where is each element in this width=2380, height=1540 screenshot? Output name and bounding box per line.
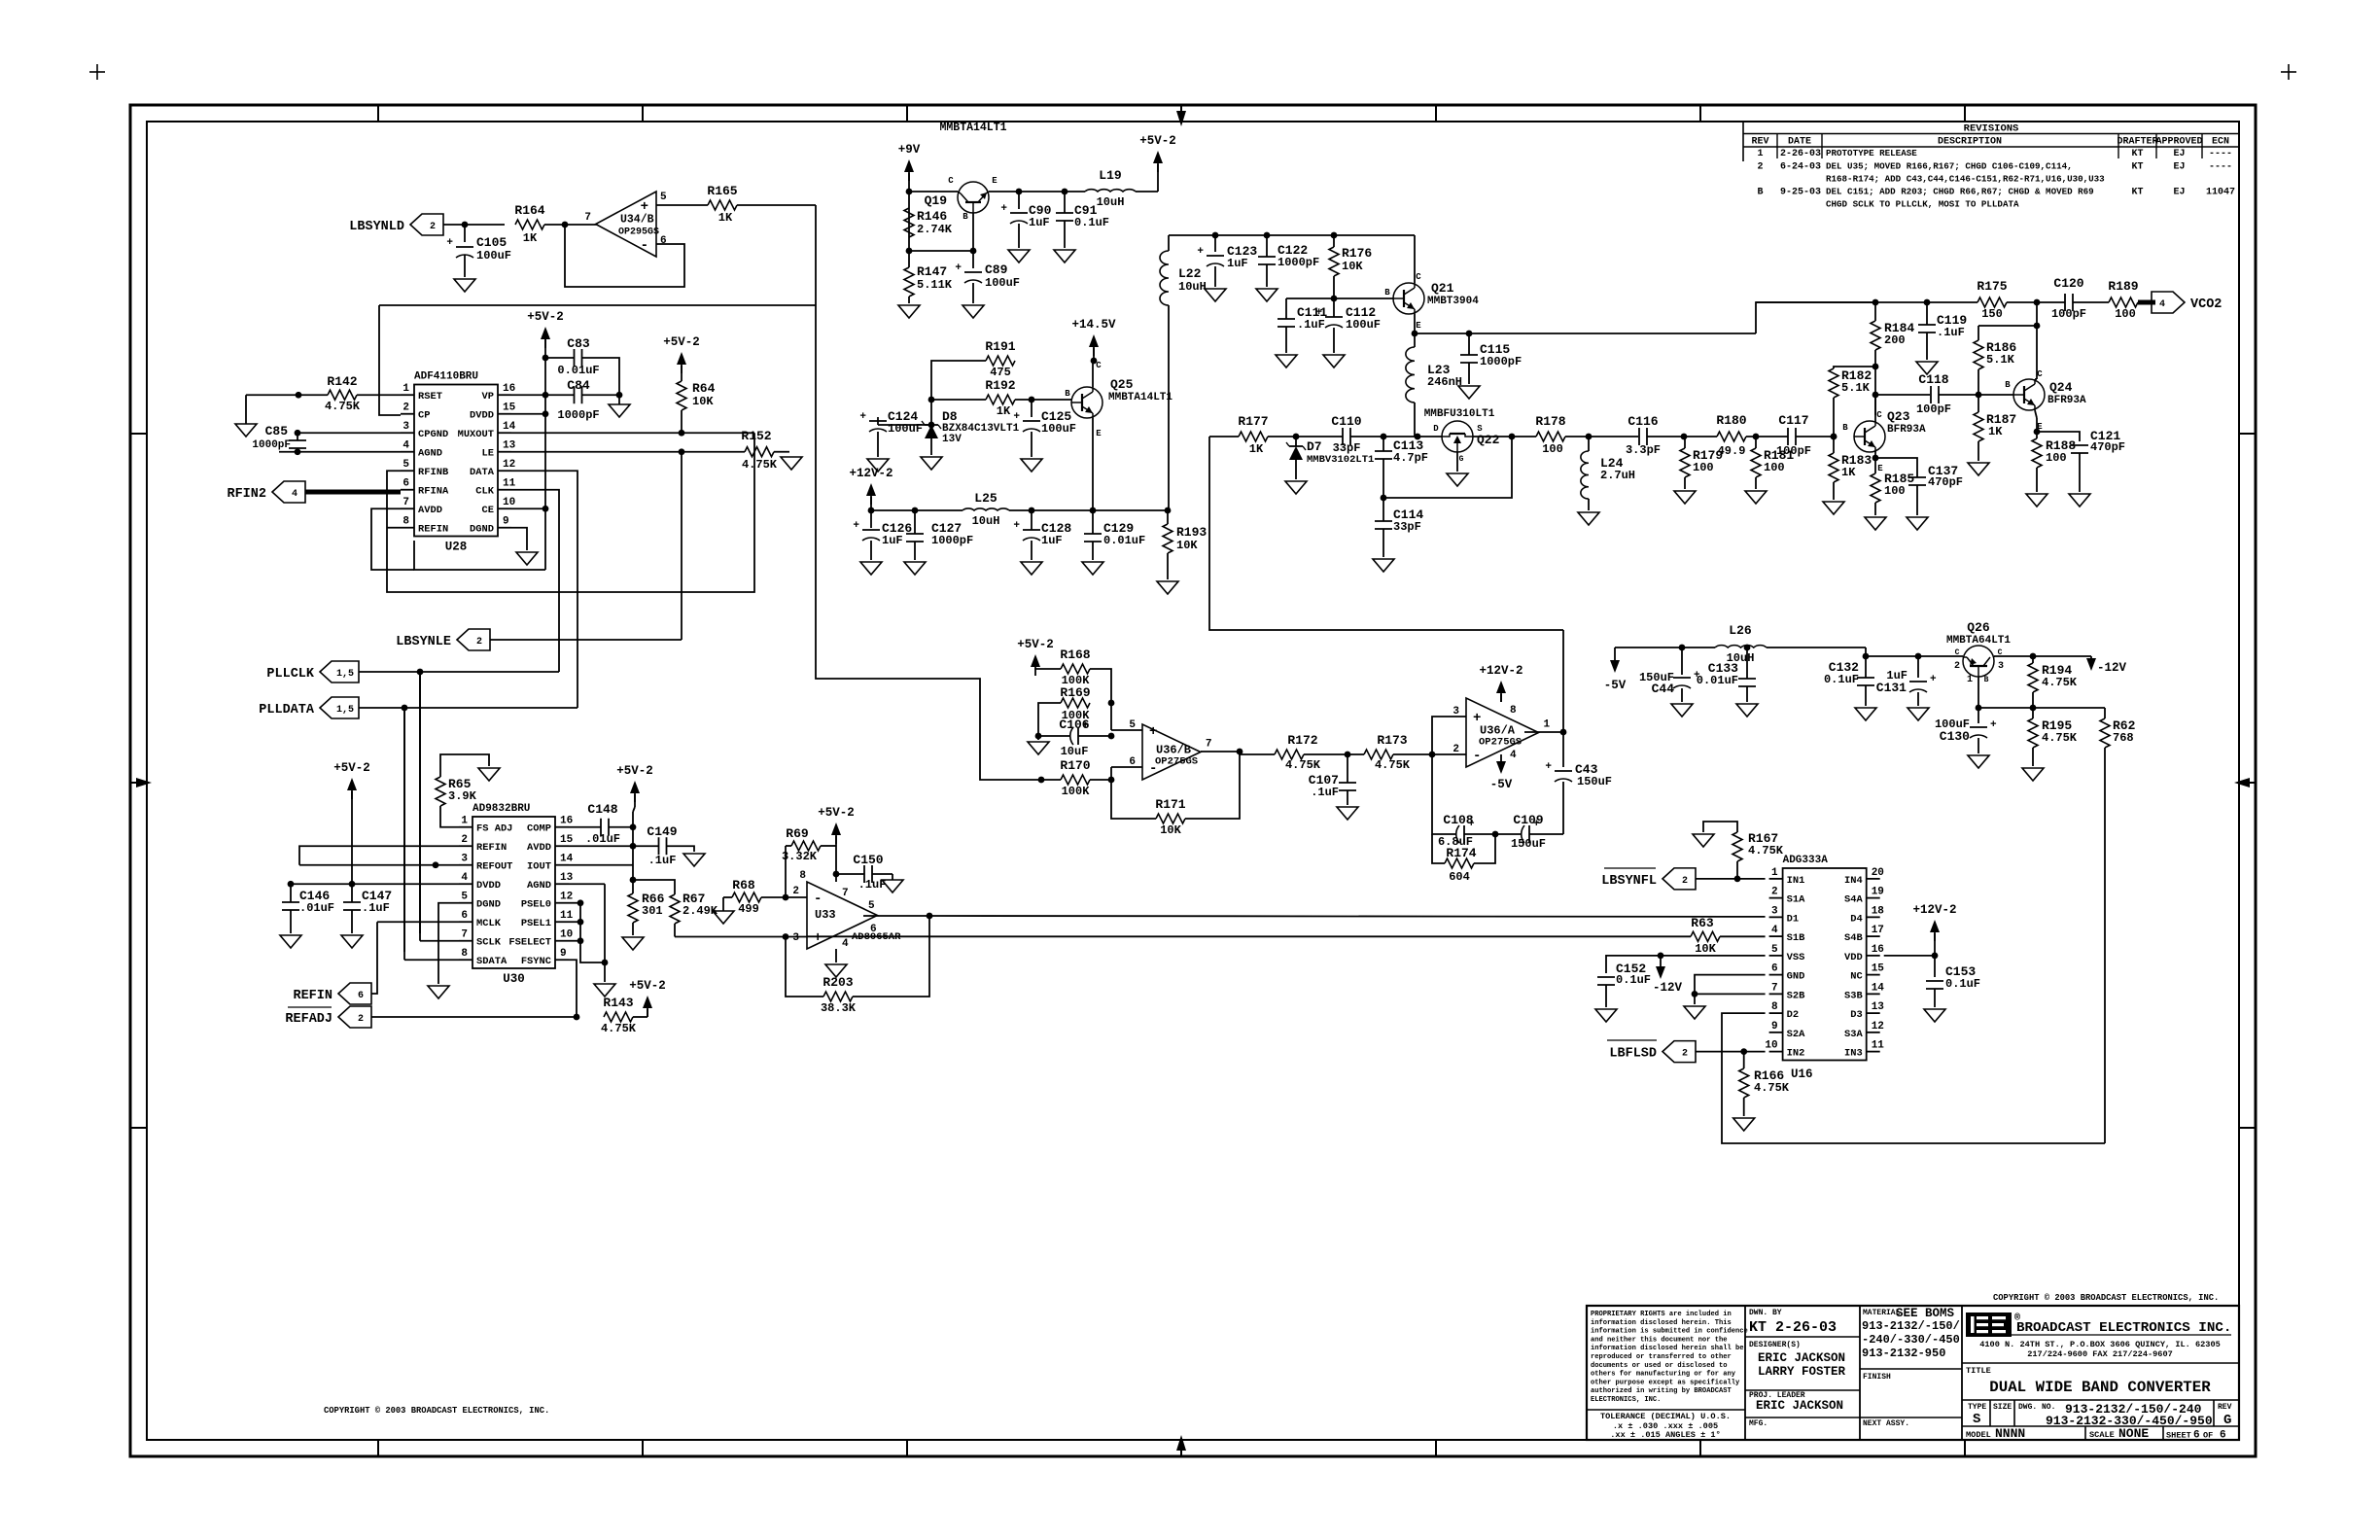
svg-text:.xx ± .015 ANGLES ± 1°: .xx ± .015 ANGLES ± 1° bbox=[1610, 1430, 1720, 1440]
svg-text:EJ: EJ bbox=[2173, 188, 2185, 198]
svg-text:CLK: CLK bbox=[475, 486, 494, 498]
svg-text:100: 100 bbox=[2046, 451, 2067, 465]
svg-text:Q23: Q23 bbox=[1887, 409, 1910, 424]
svg-text:PSEL1: PSEL1 bbox=[521, 918, 551, 929]
svg-text:1000pF: 1000pF bbox=[1480, 355, 1522, 368]
svg-text:S3B: S3B bbox=[1844, 990, 1863, 1001]
svg-text:L22: L22 bbox=[1178, 266, 1202, 281]
svg-text:+5V-2: +5V-2 bbox=[333, 761, 370, 775]
svg-text:AVDD: AVDD bbox=[527, 842, 551, 854]
svg-text:RFINA: RFINA bbox=[418, 486, 449, 498]
svg-text:R192: R192 bbox=[985, 378, 1015, 393]
svg-text:R169: R169 bbox=[1060, 685, 1090, 700]
svg-text:D4: D4 bbox=[1850, 913, 1862, 925]
svg-text:0.01uF: 0.01uF bbox=[1103, 534, 1145, 547]
svg-text:SCALE: SCALE bbox=[2089, 1430, 2115, 1440]
svg-text:LARRY FOSTER: LARRY FOSTER bbox=[1758, 1365, 1846, 1379]
svg-text:and neither this document nor: and neither this document nor the bbox=[1591, 1336, 1727, 1344]
svg-text:5.1K: 5.1K bbox=[1841, 381, 1871, 395]
svg-text:DESIGNER(S): DESIGNER(S) bbox=[1749, 1341, 1801, 1349]
svg-text:CPGND: CPGND bbox=[418, 429, 448, 440]
svg-text:10K: 10K bbox=[1342, 260, 1363, 273]
svg-text:COPYRIGHT © 2003 BROADCAST ELE: COPYRIGHT © 2003 BROADCAST ELECTRONICS, … bbox=[1993, 1293, 2219, 1303]
svg-text:authorized in writing by BROAD: authorized in writing by BROADCAST bbox=[1591, 1387, 1732, 1395]
svg-text:4: 4 bbox=[1510, 750, 1517, 761]
svg-text:DWG. NO.: DWG. NO. bbox=[2018, 1403, 2055, 1412]
svg-text:8: 8 bbox=[402, 516, 409, 528]
svg-text:SHEET: SHEET bbox=[2166, 1431, 2191, 1441]
svg-text:2: 2 bbox=[476, 637, 482, 647]
svg-text:OP275GS: OP275GS bbox=[1155, 756, 1198, 768]
svg-text:R168-R174; ADD C43,C44,C146-C1: R168-R174; ADD C43,C44,C146-C151,R62-R71… bbox=[1826, 174, 2105, 185]
svg-text:R165: R165 bbox=[707, 184, 737, 198]
svg-text:16: 16 bbox=[503, 383, 515, 395]
svg-text:KT 2-26-03: KT 2-26-03 bbox=[1749, 1319, 1837, 1336]
svg-text:PROTOTYPE RELEASE: PROTOTYPE RELEASE bbox=[1826, 148, 1917, 158]
svg-text:0.1uF: 0.1uF bbox=[1945, 977, 1980, 991]
svg-text:1K: 1K bbox=[997, 404, 1011, 418]
svg-text:DEL U35; MOVED R166,R167; CHGD: DEL U35; MOVED R166,R167; CHGD C106-C109… bbox=[1826, 161, 2073, 172]
svg-text:DEL C151; ADD R203; CHGD R66,R: DEL C151; ADD R203; CHGD R66,R67; CHGD &… bbox=[1826, 187, 2094, 197]
svg-text:KT: KT bbox=[2131, 188, 2143, 198]
svg-text:C: C bbox=[2037, 369, 2043, 379]
svg-text:2: 2 bbox=[358, 1014, 364, 1025]
svg-text:100pF: 100pF bbox=[2051, 307, 2086, 321]
svg-text:+5V-2: +5V-2 bbox=[1017, 638, 1054, 651]
svg-text:8: 8 bbox=[1771, 1001, 1778, 1013]
svg-text:C: C bbox=[948, 176, 954, 186]
svg-text:4: 4 bbox=[292, 489, 297, 500]
svg-text:200: 200 bbox=[1884, 333, 1906, 347]
svg-text:AGND: AGND bbox=[418, 448, 442, 460]
svg-text:S1B: S1B bbox=[1787, 932, 1805, 944]
svg-text:3.3pF: 3.3pF bbox=[1626, 443, 1661, 457]
svg-text:L25: L25 bbox=[974, 491, 997, 506]
svg-text:D: D bbox=[1433, 424, 1439, 434]
svg-text:TYPE: TYPE bbox=[1968, 1403, 1986, 1412]
svg-text:information disclosed herein.: information disclosed herein. This bbox=[1591, 1319, 1732, 1327]
svg-text:R203: R203 bbox=[822, 975, 853, 990]
svg-text:DGND: DGND bbox=[476, 899, 501, 911]
svg-text:C117: C117 bbox=[1778, 413, 1808, 428]
svg-text:1uF: 1uF bbox=[1029, 216, 1050, 229]
svg-text:R143: R143 bbox=[603, 996, 633, 1010]
svg-text:913-2132-950: 913-2132-950 bbox=[1862, 1347, 1945, 1360]
svg-text:913-2132/-150/: 913-2132/-150/ bbox=[1862, 1319, 1960, 1333]
svg-text:IN2: IN2 bbox=[1787, 1048, 1805, 1060]
svg-text:4: 4 bbox=[1771, 925, 1778, 936]
svg-text:4.75K: 4.75K bbox=[2042, 731, 2078, 745]
svg-text:+: + bbox=[859, 411, 866, 423]
svg-text:E: E bbox=[1096, 429, 1102, 438]
svg-text:COPYRIGHT © 2003 BROADCAST ELE: COPYRIGHT © 2003 BROADCAST ELECTRONICS, … bbox=[324, 1406, 549, 1416]
svg-text:NC: NC bbox=[1850, 971, 1862, 983]
svg-text:DESCRIPTION: DESCRIPTION bbox=[1938, 137, 2002, 148]
svg-text:R173: R173 bbox=[1377, 733, 1407, 748]
svg-text:U33: U33 bbox=[815, 908, 836, 922]
svg-text:C106: C106 bbox=[1059, 717, 1089, 732]
svg-text:2: 2 bbox=[402, 402, 409, 414]
svg-text:.1uF: .1uF bbox=[1311, 786, 1339, 799]
svg-text:2: 2 bbox=[1682, 876, 1688, 887]
svg-text:1,5: 1,5 bbox=[336, 669, 354, 680]
svg-text:SEE BOMS: SEE BOMS bbox=[1896, 1307, 1955, 1320]
svg-text:S1A: S1A bbox=[1787, 894, 1805, 906]
svg-text:3: 3 bbox=[792, 932, 799, 944]
svg-text:2: 2 bbox=[1771, 887, 1778, 898]
svg-text:2-26-03: 2-26-03 bbox=[1780, 149, 1821, 159]
svg-text:475: 475 bbox=[990, 366, 1011, 379]
svg-text:13: 13 bbox=[560, 872, 574, 884]
svg-text:C149: C149 bbox=[647, 824, 677, 839]
svg-text:reproduced or transferred to o: reproduced or transferred to other bbox=[1591, 1353, 1732, 1361]
svg-text:+: + bbox=[1013, 520, 1020, 532]
svg-text:217/224-9600 FAX 217/224-9607: 217/224-9600 FAX 217/224-9607 bbox=[2027, 1349, 2173, 1359]
svg-text:B: B bbox=[1842, 423, 1848, 433]
svg-text:+5V-2: +5V-2 bbox=[663, 335, 700, 349]
svg-text:information disclosed herein s: information disclosed herein shall be bbox=[1591, 1345, 1744, 1352]
svg-text:G: G bbox=[1459, 455, 1464, 464]
svg-text:+: + bbox=[1000, 203, 1007, 215]
svg-text:B: B bbox=[2005, 380, 2011, 390]
svg-text:NEXT ASSY.: NEXT ASSY. bbox=[1863, 1419, 1909, 1428]
svg-text:Q26: Q26 bbox=[1967, 620, 1990, 635]
svg-text:10: 10 bbox=[560, 929, 573, 941]
svg-text:G: G bbox=[2223, 1413, 2231, 1428]
svg-text:other purpose except as specif: other purpose except as specifically bbox=[1591, 1379, 1740, 1386]
svg-text:100uF: 100uF bbox=[476, 249, 511, 262]
svg-text:16: 16 bbox=[560, 816, 573, 827]
svg-text:4.75K: 4.75K bbox=[601, 1022, 637, 1035]
svg-text:ELECTRONICS, INC.: ELECTRONICS, INC. bbox=[1591, 1396, 1661, 1404]
svg-text:3: 3 bbox=[1771, 905, 1778, 917]
svg-text:MMBV3102LT1: MMBV3102LT1 bbox=[1307, 454, 1374, 466]
svg-text:33pF: 33pF bbox=[1393, 520, 1421, 534]
svg-text:0.01uF: 0.01uF bbox=[557, 364, 599, 377]
svg-text:6: 6 bbox=[461, 910, 468, 922]
svg-text:DRAFTER: DRAFTER bbox=[2117, 137, 2157, 148]
svg-text:3: 3 bbox=[461, 854, 468, 865]
svg-text:1000pF: 1000pF bbox=[252, 439, 291, 451]
svg-text:IN1: IN1 bbox=[1787, 875, 1805, 887]
svg-text:R63: R63 bbox=[1691, 916, 1714, 930]
svg-text:DGND: DGND bbox=[470, 524, 494, 536]
svg-text:MMBFU310LT1: MMBFU310LT1 bbox=[1424, 408, 1495, 420]
svg-text:U36/A: U36/A bbox=[1480, 724, 1516, 738]
svg-text:+: + bbox=[1197, 246, 1204, 258]
svg-text:.01uF: .01uF bbox=[585, 832, 620, 846]
svg-text:R168: R168 bbox=[1060, 647, 1090, 662]
svg-text:R176: R176 bbox=[1342, 246, 1372, 261]
svg-text:15: 15 bbox=[1872, 963, 1885, 975]
svg-text:AGND: AGND bbox=[527, 880, 551, 892]
svg-text:4100 N. 24TH ST., P.O.BOX 3606: 4100 N. 24TH ST., P.O.BOX 3606 QUINCY, I… bbox=[1979, 1340, 2221, 1349]
svg-text:2: 2 bbox=[1682, 1049, 1688, 1060]
svg-text:+: + bbox=[1149, 724, 1157, 740]
svg-text:6: 6 bbox=[660, 235, 667, 247]
svg-text:REV: REV bbox=[2218, 1403, 2232, 1412]
svg-text:CHGD SCLK TO PLLCLK, MOSI TO P: CHGD SCLK TO PLLCLK, MOSI TO PLLDATA bbox=[1826, 199, 2019, 210]
svg-text:Q22: Q22 bbox=[1477, 433, 1500, 447]
svg-text:100pF: 100pF bbox=[1916, 402, 1951, 416]
svg-text:4.75K: 4.75K bbox=[325, 400, 361, 413]
svg-text:BFR93A: BFR93A bbox=[2047, 395, 2086, 406]
svg-text:-12V: -12V bbox=[2097, 661, 2127, 675]
svg-text:IN4: IN4 bbox=[1844, 875, 1863, 887]
svg-text:U30: U30 bbox=[503, 972, 525, 986]
svg-text:5: 5 bbox=[461, 892, 468, 903]
svg-text:7: 7 bbox=[842, 888, 849, 899]
svg-text:B: B bbox=[962, 212, 968, 222]
svg-text:R64: R64 bbox=[692, 381, 716, 396]
svg-text:+: + bbox=[446, 237, 453, 249]
svg-text:15: 15 bbox=[503, 402, 516, 414]
svg-text:R178: R178 bbox=[1535, 414, 1565, 429]
svg-text:APPROVED: APPROVED bbox=[2155, 137, 2202, 148]
svg-text:1: 1 bbox=[1544, 719, 1551, 731]
svg-text:MMBTA14LT1: MMBTA14LT1 bbox=[939, 122, 1006, 134]
svg-text:GND: GND bbox=[1787, 971, 1805, 983]
svg-text:VDD: VDD bbox=[1844, 952, 1863, 963]
svg-text:13: 13 bbox=[1872, 1001, 1885, 1013]
svg-text:12: 12 bbox=[560, 892, 573, 903]
svg-text:SDATA: SDATA bbox=[476, 956, 507, 967]
svg-text:S3A: S3A bbox=[1844, 1029, 1863, 1040]
svg-text:4.75K: 4.75K bbox=[1285, 758, 1321, 772]
svg-text:10: 10 bbox=[503, 497, 515, 508]
svg-text:1,5: 1,5 bbox=[336, 705, 354, 716]
svg-text:2: 2 bbox=[1954, 661, 1960, 672]
svg-text:16: 16 bbox=[1872, 944, 1884, 956]
svg-text:DATA: DATA bbox=[470, 467, 495, 478]
svg-text:6: 6 bbox=[2220, 1430, 2226, 1442]
svg-text:100: 100 bbox=[1884, 484, 1906, 498]
svg-text:U36/B: U36/B bbox=[1156, 744, 1191, 757]
svg-text:ERIC JACKSON: ERIC JACKSON bbox=[1756, 1399, 1843, 1413]
svg-text:C84: C84 bbox=[567, 378, 590, 393]
svg-text:----: ---- bbox=[2209, 162, 2232, 173]
svg-text:NNNN: NNNN bbox=[1995, 1426, 2025, 1441]
svg-text:MCLK: MCLK bbox=[476, 918, 502, 929]
svg-text:-: - bbox=[814, 892, 822, 907]
svg-text:-: - bbox=[1473, 749, 1481, 764]
svg-text:5: 5 bbox=[402, 459, 409, 471]
svg-text:+14.5V: +14.5V bbox=[1071, 318, 1116, 332]
svg-text:38.3K: 38.3K bbox=[821, 1001, 857, 1015]
svg-text:RFIN2: RFIN2 bbox=[227, 487, 266, 502]
svg-text:+12V-2: +12V-2 bbox=[1912, 903, 1956, 917]
svg-text:C44: C44 bbox=[1652, 682, 1675, 696]
svg-text:+: + bbox=[853, 520, 859, 532]
svg-text:others for manufacturing or fo: others for manufacturing or for any bbox=[1591, 1371, 1736, 1379]
svg-text:8: 8 bbox=[1510, 705, 1517, 717]
svg-text:+5V-2: +5V-2 bbox=[616, 764, 653, 778]
svg-text:D7: D7 bbox=[1307, 439, 1322, 454]
svg-text:SCLK: SCLK bbox=[476, 937, 502, 949]
svg-text:3: 3 bbox=[1998, 661, 2004, 672]
svg-text:8: 8 bbox=[799, 870, 806, 882]
svg-text:R177: R177 bbox=[1238, 414, 1268, 429]
svg-text:+: + bbox=[1013, 411, 1020, 423]
svg-text:4: 4 bbox=[2159, 299, 2165, 310]
svg-text:1K: 1K bbox=[1249, 442, 1264, 456]
svg-text:6: 6 bbox=[402, 478, 409, 490]
svg-text:1: 1 bbox=[1967, 675, 1973, 685]
svg-text:6: 6 bbox=[1771, 963, 1778, 975]
svg-text:----: ---- bbox=[2209, 149, 2232, 159]
svg-text:U28: U28 bbox=[445, 541, 468, 554]
svg-text:100pF: 100pF bbox=[1776, 444, 1811, 458]
svg-text:7: 7 bbox=[1206, 739, 1212, 751]
svg-text:AVDD: AVDD bbox=[418, 505, 442, 516]
svg-text:AD9832BRU: AD9832BRU bbox=[472, 803, 530, 815]
svg-text:COMP: COMP bbox=[527, 823, 551, 835]
svg-text:DVDD: DVDD bbox=[470, 410, 494, 422]
svg-text:9: 9 bbox=[503, 516, 509, 528]
svg-text:100K: 100K bbox=[1062, 785, 1091, 798]
svg-text:MUXOUT: MUXOUT bbox=[458, 429, 494, 440]
svg-text:D2: D2 bbox=[1787, 1009, 1799, 1021]
svg-text:D1: D1 bbox=[1787, 913, 1799, 925]
svg-text:VSS: VSS bbox=[1787, 952, 1805, 963]
svg-text:5: 5 bbox=[1129, 719, 1136, 731]
svg-text:5.1K: 5.1K bbox=[1986, 353, 2015, 367]
svg-text:C105: C105 bbox=[476, 235, 507, 250]
svg-text:12: 12 bbox=[1872, 1021, 1884, 1032]
svg-text:DWN. BY: DWN. BY bbox=[1749, 1309, 1782, 1317]
svg-text:470pF: 470pF bbox=[1928, 475, 1963, 489]
svg-text:B: B bbox=[1757, 188, 1763, 198]
svg-text:ADF4110BRU: ADF4110BRU bbox=[414, 371, 478, 383]
svg-text:LBSYNFL: LBSYNFL bbox=[1601, 874, 1657, 889]
svg-text:MFG.: MFG. bbox=[1749, 1419, 1767, 1428]
svg-text:LBSYNLE: LBSYNLE bbox=[396, 635, 451, 649]
svg-text:5: 5 bbox=[1771, 944, 1778, 956]
svg-text:REVISIONS: REVISIONS bbox=[1964, 123, 2019, 135]
svg-text:Q21: Q21 bbox=[1431, 281, 1454, 296]
svg-text:REFIN: REFIN bbox=[418, 524, 448, 536]
svg-text:301: 301 bbox=[642, 904, 663, 918]
svg-text:1000pF: 1000pF bbox=[1277, 256, 1319, 269]
svg-text:documents or used or disclosed: documents or used or disclosed to bbox=[1591, 1362, 1727, 1370]
svg-text:1K: 1K bbox=[718, 211, 733, 225]
svg-text:10uF: 10uF bbox=[1061, 745, 1089, 758]
svg-text:R68: R68 bbox=[732, 878, 755, 892]
svg-text:-240/-330/-450: -240/-330/-450 bbox=[1862, 1333, 1960, 1347]
svg-text:C148: C148 bbox=[587, 802, 617, 817]
svg-text:R146: R146 bbox=[917, 209, 947, 224]
svg-text:10K: 10K bbox=[692, 395, 714, 408]
svg-text:4: 4 bbox=[461, 872, 468, 884]
svg-text:100uF: 100uF bbox=[985, 276, 1020, 290]
svg-text:499: 499 bbox=[738, 902, 759, 916]
svg-text:+12V-2: +12V-2 bbox=[849, 467, 892, 480]
svg-text:MMBTA14LT1: MMBTA14LT1 bbox=[1108, 392, 1172, 403]
svg-text:+5V-2: +5V-2 bbox=[527, 310, 564, 324]
svg-text:DVDD: DVDD bbox=[476, 880, 501, 892]
svg-text:100: 100 bbox=[1542, 442, 1563, 456]
svg-text:R171: R171 bbox=[1155, 797, 1185, 812]
svg-text:PROPRIETARY RIGHTS are include: PROPRIETARY RIGHTS are included in bbox=[1591, 1311, 1732, 1318]
svg-text:100: 100 bbox=[1693, 461, 1714, 474]
svg-text:OF: OF bbox=[2203, 1431, 2213, 1441]
svg-text:+12V-2: +12V-2 bbox=[1479, 664, 1522, 678]
svg-text:Q25: Q25 bbox=[1110, 377, 1134, 392]
svg-text:10uH: 10uH bbox=[972, 514, 1000, 528]
svg-text:BFR93A: BFR93A bbox=[1887, 424, 1926, 436]
svg-text:0.1uF: 0.1uF bbox=[1074, 216, 1109, 229]
svg-text:L19: L19 bbox=[1099, 168, 1122, 183]
svg-text:S4A: S4A bbox=[1844, 894, 1863, 906]
svg-text:C120: C120 bbox=[2053, 276, 2083, 291]
svg-text:2: 2 bbox=[1757, 162, 1763, 173]
svg-text:1: 1 bbox=[1757, 149, 1763, 159]
svg-text:+: + bbox=[1545, 761, 1552, 773]
svg-text:FSYNC: FSYNC bbox=[521, 956, 551, 967]
svg-text:10K: 10K bbox=[1695, 942, 1716, 956]
svg-text:B: B bbox=[1984, 676, 1989, 684]
svg-text:VCO2: VCO2 bbox=[2190, 297, 2222, 312]
svg-text:S2B: S2B bbox=[1787, 990, 1805, 1001]
svg-text:R191: R191 bbox=[985, 339, 1015, 354]
svg-text:+9V: +9V bbox=[898, 143, 921, 157]
svg-text:+5V-2: +5V-2 bbox=[1139, 134, 1176, 148]
svg-text:246nH: 246nH bbox=[1427, 375, 1462, 389]
svg-text:4.75K: 4.75K bbox=[742, 458, 778, 472]
svg-text:3.32K: 3.32K bbox=[782, 850, 818, 863]
svg-text:MODEL: MODEL bbox=[1966, 1430, 1991, 1440]
svg-text:DATE: DATE bbox=[1788, 137, 1811, 148]
svg-text:11: 11 bbox=[1872, 1040, 1885, 1052]
svg-text:information is submitted in co: information is submitted in confidence bbox=[1591, 1328, 1748, 1336]
svg-text:U16: U16 bbox=[1791, 1067, 1813, 1081]
svg-text:+: + bbox=[814, 930, 822, 946]
svg-text:20: 20 bbox=[1872, 867, 1884, 879]
svg-text:C: C bbox=[1876, 410, 1882, 420]
svg-text:C150: C150 bbox=[853, 853, 883, 867]
svg-text:NONE: NONE bbox=[2118, 1426, 2149, 1441]
svg-text:REFIN: REFIN bbox=[476, 842, 507, 854]
svg-text:7: 7 bbox=[584, 212, 591, 224]
svg-text:.1uF: .1uF bbox=[1937, 326, 1965, 339]
svg-text:100: 100 bbox=[2115, 307, 2136, 321]
svg-text:REV: REV bbox=[1751, 137, 1768, 148]
svg-text:R189: R189 bbox=[2108, 279, 2138, 294]
svg-text:9-25-03: 9-25-03 bbox=[1780, 188, 1821, 198]
svg-text:PLLDATA: PLLDATA bbox=[259, 703, 315, 717]
svg-text:C85: C85 bbox=[265, 424, 289, 438]
svg-text:KT: KT bbox=[2131, 149, 2143, 159]
svg-text:PLLCLK: PLLCLK bbox=[266, 667, 315, 682]
svg-text:S2A: S2A bbox=[1787, 1029, 1805, 1040]
svg-text:R147: R147 bbox=[917, 264, 947, 279]
svg-text:2: 2 bbox=[430, 222, 436, 232]
svg-text:R152: R152 bbox=[741, 429, 771, 443]
svg-text:150uF: 150uF bbox=[1511, 837, 1546, 851]
svg-text:.01uF: .01uF bbox=[299, 901, 334, 915]
svg-text:18: 18 bbox=[1872, 905, 1885, 917]
svg-text:C131: C131 bbox=[1876, 681, 1907, 695]
svg-text:Q19: Q19 bbox=[925, 193, 948, 208]
svg-text:R172: R172 bbox=[1287, 733, 1317, 748]
svg-text:FSELECT: FSELECT bbox=[508, 937, 551, 949]
svg-text:2: 2 bbox=[792, 886, 799, 897]
svg-text:DUAL WIDE BAND CONVERTER: DUAL WIDE BAND CONVERTER bbox=[1989, 1379, 2211, 1396]
svg-text:1000pF: 1000pF bbox=[931, 534, 973, 547]
svg-text:150uF: 150uF bbox=[1577, 775, 1612, 788]
svg-text:6: 6 bbox=[2193, 1430, 2200, 1442]
svg-text:-: - bbox=[641, 238, 648, 254]
